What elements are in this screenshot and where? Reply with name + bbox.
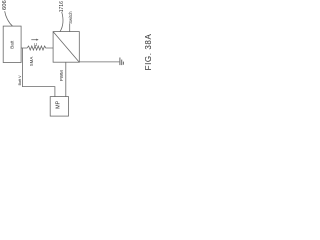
svg-text:Switch: Switch — [68, 11, 73, 24]
svg-text:FIG. 38A: FIG. 38A — [144, 34, 153, 71]
svg-text:606: 606 — [2, 0, 8, 10]
svg-text:PWM: PWM — [59, 70, 64, 81]
svg-text:Batt V: Batt V — [18, 75, 22, 86]
svg-text:5MA: 5MA — [29, 57, 34, 66]
svg-text:Batt: Batt — [10, 40, 15, 49]
svg-text:1716: 1716 — [59, 1, 65, 12]
svg-text:MP: MP — [55, 100, 61, 108]
